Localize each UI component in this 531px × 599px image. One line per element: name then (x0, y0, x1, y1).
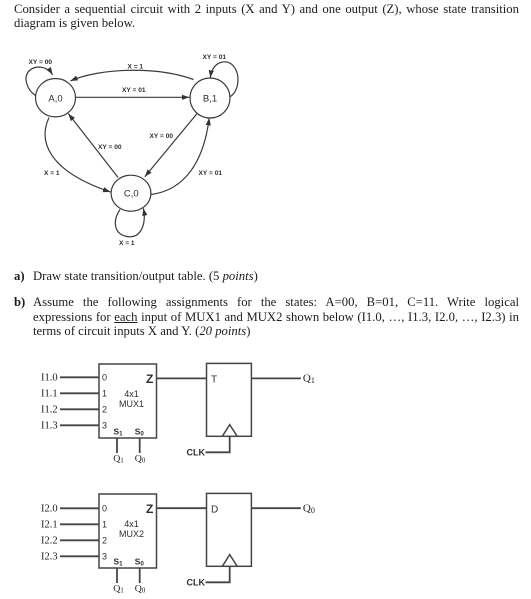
svg-text:Z: Z (146, 502, 153, 516)
svg-text:I1.3: I1.3 (41, 421, 58, 432)
svg-text:XY = 00: XY = 00 (150, 133, 174, 140)
svg-text:I2.0: I2.0 (41, 504, 58, 515)
svg-text:2: 2 (102, 536, 107, 546)
svg-text:I2.1: I2.1 (41, 520, 58, 531)
wire CLK (206, 566, 230, 582)
wire A to B labelled XY=01 (76, 96, 190, 98)
svg-text:I1.2: I1.2 (41, 405, 58, 416)
svg-text:I2.2: I2.2 (41, 536, 58, 547)
item b text (33, 295, 519, 339)
clock triangle on D flip-flop (222, 555, 237, 567)
svg-text:D: D (211, 505, 218, 516)
wire input I1.0 (60, 376, 99, 378)
svg-text:4x1: 4x1 (124, 519, 139, 529)
arc B to A labelled X=1 (70, 70, 193, 81)
wire input I1.1 (60, 392, 99, 394)
mux MUX1 box (99, 364, 157, 438)
wire select S1 to Q1 (116, 438, 118, 453)
flip-flop U2 box (D) (207, 493, 252, 566)
wire select S0 to Q0 (139, 568, 141, 583)
svg-text:CLK: CLK (187, 448, 206, 458)
svg-text:3: 3 (102, 552, 107, 562)
wire Z to D input (157, 507, 207, 509)
wire input I2.3 (60, 555, 99, 557)
svg-text:Q1: Q1 (303, 372, 315, 385)
state B circle (190, 78, 230, 118)
wire input I1.3 (60, 424, 99, 426)
wire T flip-flop output to Q1 (251, 377, 300, 379)
wire input I2.2 (60, 539, 99, 541)
state B self-loop arc (210, 62, 238, 97)
svg-text:Q0: Q0 (303, 502, 315, 515)
svg-text:XY = 01: XY = 01 (203, 54, 227, 61)
svg-text:2: 2 (102, 405, 107, 415)
svg-text:I2.3: I2.3 (41, 552, 58, 563)
state A self-loop arc (26, 67, 53, 95)
mux MUX2 box (99, 494, 157, 568)
svg-text:1: 1 (102, 520, 107, 530)
svg-text:1: 1 (102, 389, 107, 399)
svg-text:Q0: Q0 (135, 453, 146, 464)
wire input I1.2 (60, 408, 99, 410)
svg-text:A,0: A,0 (48, 94, 62, 105)
wire B to C labelled XY=00 (145, 113, 197, 176)
state C circle (111, 175, 151, 211)
svg-text:XY = 01: XY = 01 (122, 87, 146, 94)
svg-text:XY = 01: XY = 01 (199, 170, 223, 177)
wire C to A labelled XY=00 (68, 114, 118, 178)
svg-text:Z: Z (146, 372, 153, 386)
wire Z to T input (157, 377, 207, 379)
svg-text:MUX1: MUX1 (119, 399, 144, 409)
svg-text:CLK: CLK (187, 578, 206, 588)
item a label (14, 269, 25, 284)
svg-text:Q0: Q0 (135, 583, 146, 594)
svg-text:4x1: 4x1 (124, 389, 139, 399)
svg-text:X = 1: X = 1 (128, 64, 144, 71)
svg-text:XY = 00: XY = 00 (29, 59, 53, 66)
svg-text:T: T (211, 375, 217, 386)
wire select S1 to Q1 (116, 568, 118, 583)
wire input I2.1 (60, 523, 99, 525)
svg-text:0: 0 (102, 373, 107, 383)
state C self-loop arc (115, 208, 144, 237)
item b label (14, 295, 25, 310)
arc C to B labelled XY=01 (151, 118, 209, 195)
wire select S0 to Q0 (139, 438, 141, 453)
clock triangle on T flip-flop (222, 425, 237, 437)
svg-text:X = 1: X = 1 (44, 170, 60, 177)
svg-text:I1.0: I1.0 (41, 373, 58, 384)
svg-text:MUX2: MUX2 (119, 529, 144, 539)
svg-text:B,1: B,1 (203, 94, 217, 105)
item a text (33, 269, 519, 284)
state A circle (36, 79, 76, 117)
intro paragraph (14, 2, 519, 31)
wire D flip-flop output to Q0 (251, 507, 300, 509)
svg-text:0: 0 (102, 504, 107, 514)
flip-flop U1 box (T) (207, 363, 252, 436)
svg-text:XY = 00: XY = 00 (98, 144, 122, 151)
svg-text:I1.1: I1.1 (41, 389, 58, 400)
svg-text:X = 1: X = 1 (119, 240, 135, 247)
wire input I2.0 (60, 507, 99, 509)
arc A to C labelled X=1 (45, 118, 110, 193)
svg-text:C,0: C,0 (124, 188, 139, 199)
svg-text:3: 3 (102, 421, 107, 431)
svg-text:Q1: Q1 (113, 583, 124, 594)
svg-text:Q1: Q1 (113, 453, 124, 464)
wire CLK (206, 436, 230, 452)
